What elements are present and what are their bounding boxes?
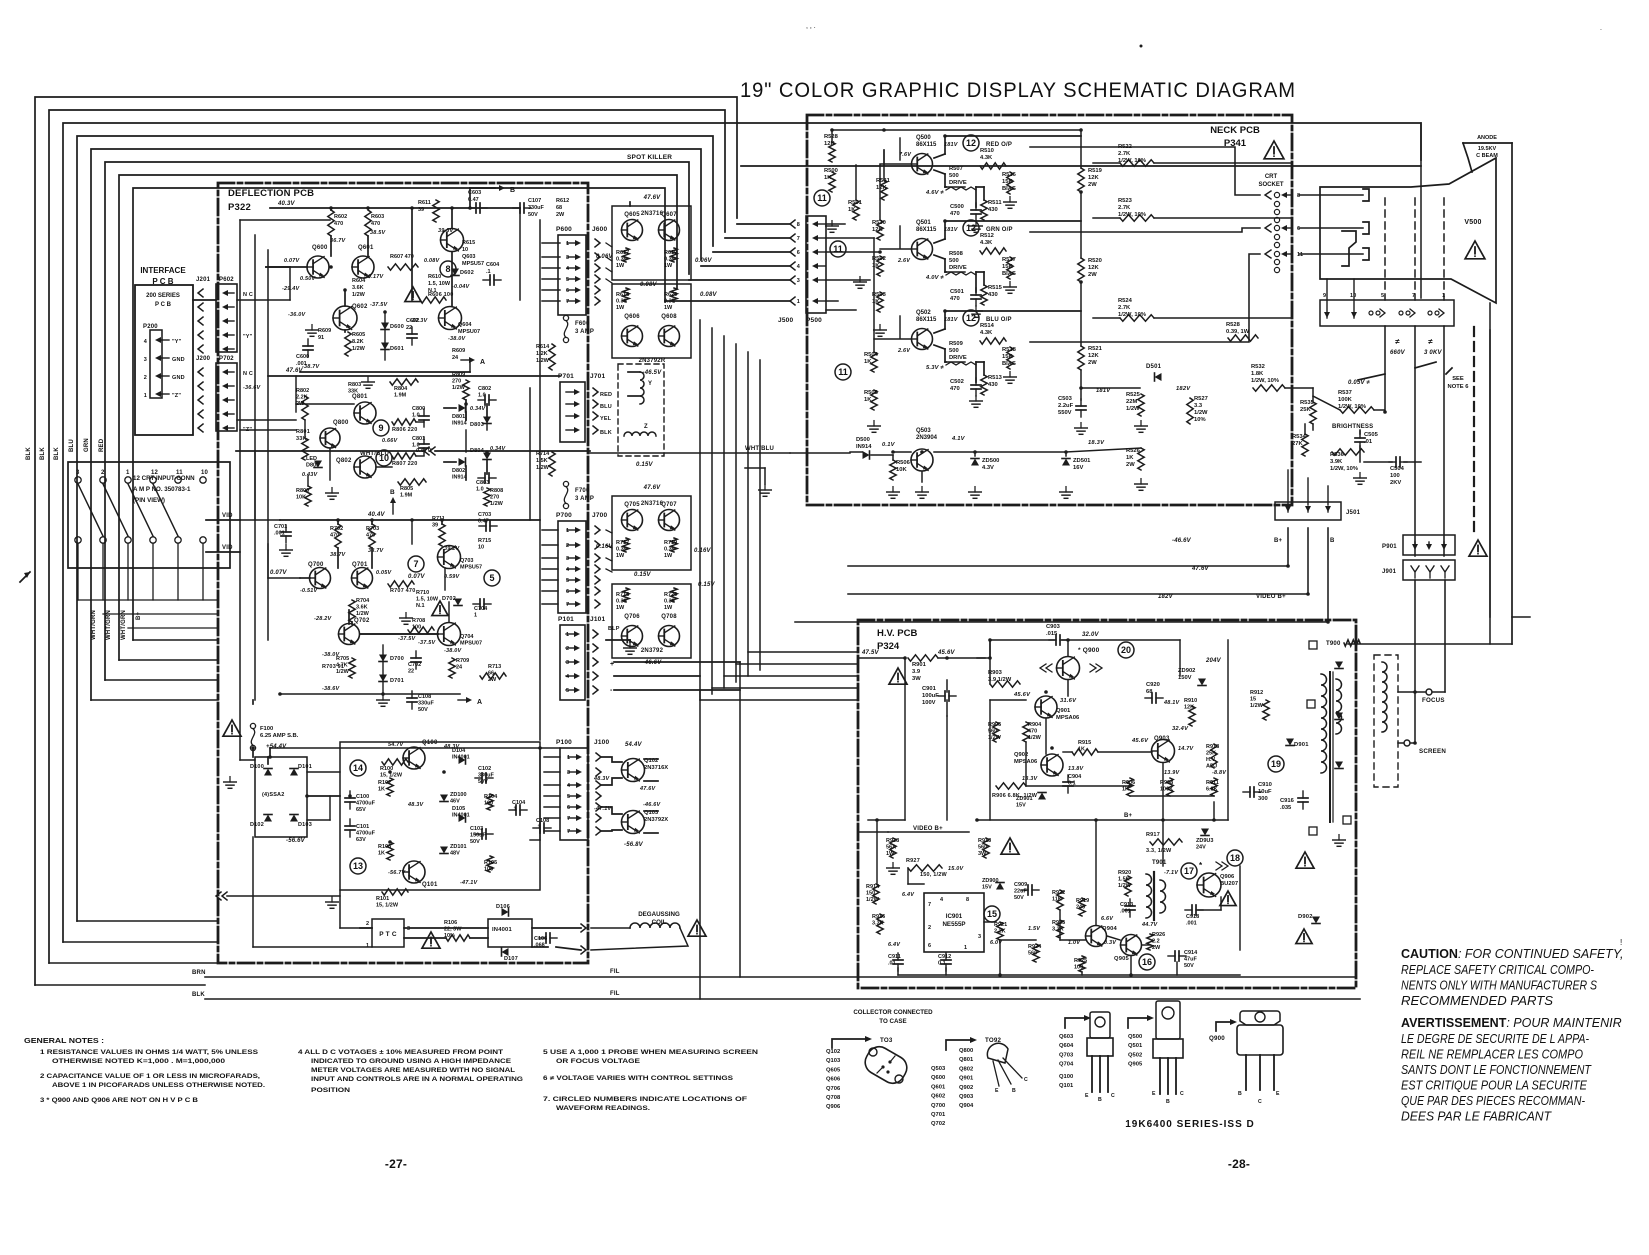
svg-text:-38.0V: -38.0V bbox=[322, 652, 341, 658]
degauss chevrons bbox=[581, 924, 586, 932]
TO220 package bbox=[1156, 1001, 1180, 1039]
svg-text:.01: .01 bbox=[888, 961, 896, 967]
svg-text:1.0: 1.0 bbox=[478, 393, 486, 399]
svg-text:2N3716: 2N3716 bbox=[641, 211, 664, 217]
resistor R102 bbox=[387, 778, 393, 796]
svg-text:R718: R718 bbox=[616, 592, 629, 598]
svg-text:D600: D600 bbox=[390, 324, 404, 330]
svg-text:22: 22 bbox=[406, 325, 412, 331]
svg-text:0.15V: 0.15V bbox=[634, 572, 651, 578]
capacitor C913 bbox=[1125, 899, 1135, 917]
svg-text:.01: .01 bbox=[1364, 439, 1373, 445]
svg-text:RECOMMENDED PARTS: RECOMMENDED PARTS bbox=[1401, 994, 1554, 1008]
svg-text:15, 1/2W: 15, 1/2W bbox=[380, 773, 403, 779]
svg-text:BLK: BLK bbox=[600, 430, 612, 436]
svg-text:P602: P602 bbox=[219, 277, 234, 283]
ground A1 bbox=[306, 325, 319, 337]
wire 40.3V rail bbox=[270, 207, 520, 209]
svg-text:2.2uF: 2.2uF bbox=[1058, 403, 1074, 409]
svg-text:2: 2 bbox=[566, 543, 569, 549]
svg-text:19.5KV: 19.5KV bbox=[1478, 146, 1497, 152]
svg-text:1K: 1K bbox=[1126, 455, 1134, 461]
wire HV v4 bbox=[1025, 742, 1027, 786]
transistor Q903 bbox=[1152, 740, 1175, 763]
svg-text:1K: 1K bbox=[824, 175, 832, 181]
svg-text:182V: 182V bbox=[1158, 594, 1174, 600]
TO126 package bbox=[1090, 1012, 1110, 1038]
IC901 box bbox=[924, 893, 984, 952]
svg-text:3.3K: 3.3K bbox=[1052, 927, 1064, 933]
svg-text:240: 240 bbox=[1076, 905, 1085, 911]
svg-text:P100: P100 bbox=[556, 739, 572, 746]
resistor R809 bbox=[463, 380, 469, 400]
resistor R605 bbox=[345, 332, 351, 356]
svg-text:1K: 1K bbox=[864, 359, 872, 365]
svg-text:R519: R519 bbox=[1088, 168, 1103, 174]
svg-text:48.3V: 48.3V bbox=[407, 802, 425, 808]
svg-text:6 ≠ VOLTAGE VARIES WITH CO: 6 ≠ VOLTAGE VARIES WITH CONTROL SETTINGS bbox=[543, 1075, 734, 1082]
svg-text:50V: 50V bbox=[528, 212, 538, 218]
wire B vertical bus bbox=[465, 400, 467, 404]
svg-text:, , .: , , . bbox=[806, 23, 816, 30]
svg-text:Q500: Q500 bbox=[916, 135, 931, 141]
svg-text:R514: R514 bbox=[980, 323, 995, 329]
ground R502 bbox=[854, 277, 867, 289]
svg-text:C102: C102 bbox=[478, 766, 491, 772]
svg-text:1: 1 bbox=[144, 393, 147, 399]
resistor R532 bbox=[1253, 385, 1285, 391]
wire HV h1 bbox=[990, 699, 1026, 701]
svg-text:R919: R919 bbox=[1076, 898, 1089, 904]
svg-text:R917: R917 bbox=[1146, 832, 1160, 838]
wire B to C link bbox=[469, 360, 471, 372]
wire gather drops right bbox=[103, 613, 218, 615]
svg-text:19" COLOR GRAPHIC DISPLAY: 19" COLOR GRAPHIC DISPLAY SCHEMATIC DIAG… bbox=[740, 78, 1296, 102]
svg-text:3: 3 bbox=[76, 470, 80, 476]
svg-text:RED: RED bbox=[600, 392, 612, 398]
wire video B+ entry bbox=[858, 831, 888, 833]
svg-text:3: 3 bbox=[566, 255, 569, 261]
svg-text:5 USE A 1,000 1 PROBE WHEN: 5 USE A 1,000 1 PROBE WHEN MEASURING SCR… bbox=[543, 1049, 758, 1056]
svg-text:"Y": "Y" bbox=[172, 339, 182, 345]
svg-text:0.66V: 0.66V bbox=[382, 438, 399, 444]
svg-text:MPSA06: MPSA06 bbox=[1056, 715, 1080, 721]
svg-text:50V: 50V bbox=[1014, 895, 1024, 901]
circled 7 bbox=[408, 556, 424, 572]
svg-text:P200: P200 bbox=[143, 324, 158, 330]
wire VID stub 2 bbox=[206, 551, 240, 553]
wire spot killer run bbox=[741, 165, 1421, 167]
svg-text:2: 2 bbox=[566, 646, 569, 652]
svg-text:WHT/GRN: WHT/GRN bbox=[91, 610, 97, 640]
svg-text:18: 18 bbox=[1230, 853, 1240, 863]
svg-text:5: 5 bbox=[1381, 293, 1384, 299]
svg-text:1 RESISTANCE VALUES IN OHMS: 1 RESISTANCE VALUES IN OHMS 1/4 WATT, 5%… bbox=[40, 1049, 259, 1056]
svg-text:-36.6V: -36.6V bbox=[243, 385, 262, 391]
svg-text:C909: C909 bbox=[1014, 882, 1027, 888]
wire defl v 466 bbox=[465, 404, 467, 420]
svg-text:0.39: 0.39 bbox=[664, 257, 675, 263]
svg-text:2: 2 bbox=[144, 375, 147, 381]
svg-text:45.6V: 45.6V bbox=[1013, 692, 1031, 698]
resistor R703 bbox=[369, 524, 375, 548]
svg-text:R523: R523 bbox=[1118, 198, 1133, 204]
capacitor C701 bbox=[281, 525, 291, 543]
svg-text:C: C bbox=[1258, 1099, 1262, 1105]
resistor R517 bbox=[1007, 257, 1013, 279]
resistor R919 bbox=[1079, 898, 1085, 916]
resistor R530 bbox=[877, 220, 883, 240]
resistor R718 bbox=[623, 588, 629, 602]
resistor R614 bbox=[549, 344, 555, 370]
wire collector Q500 bbox=[934, 154, 945, 158]
diode D804 bbox=[483, 453, 491, 460]
svg-text:BLK: BLK bbox=[54, 447, 60, 460]
resistor R602 bbox=[328, 210, 334, 236]
svg-text:12: 12 bbox=[966, 138, 976, 148]
svg-text:2.6V: 2.6V bbox=[897, 348, 911, 354]
svg-text:R924: R924 bbox=[1028, 944, 1042, 950]
svg-text:48.1V: 48.1V bbox=[1163, 700, 1181, 706]
transistor Q607 bbox=[659, 220, 680, 241]
svg-text:Q605: Q605 bbox=[624, 212, 640, 218]
svg-text:ZD500: ZD500 bbox=[982, 458, 999, 464]
resistor R101 bbox=[382, 889, 408, 895]
svg-text:R803: R803 bbox=[348, 382, 361, 388]
chevrons 18 bbox=[1216, 862, 1228, 870]
svg-text:-37.5V: -37.5V bbox=[398, 636, 417, 642]
svg-text:Q701: Q701 bbox=[352, 562, 368, 568]
svg-text:8: 8 bbox=[966, 897, 969, 903]
transistor Q700 bbox=[310, 568, 331, 589]
wire left loop tails bbox=[91, 699, 218, 701]
svg-text:C103: C103 bbox=[470, 826, 483, 832]
svg-text:100: 100 bbox=[1390, 473, 1400, 479]
svg-text:C802: C802 bbox=[478, 386, 491, 392]
wire T900 top link bbox=[1348, 643, 1512, 645]
svg-text:270: 270 bbox=[452, 379, 461, 385]
CRT electrode line 1 bbox=[1299, 194, 1363, 196]
svg-text:2: 2 bbox=[366, 921, 369, 927]
svg-text:R512: R512 bbox=[980, 233, 994, 239]
warning triangle F100 bbox=[223, 720, 241, 736]
capacitor C916 bbox=[1298, 791, 1308, 809]
svg-text:R920: R920 bbox=[1118, 870, 1131, 876]
svg-text:Q708: Q708 bbox=[826, 1095, 841, 1101]
wire RGB output green bbox=[1030, 228, 1260, 232]
svg-text:B+: B+ bbox=[1274, 538, 1283, 544]
svg-text:1: 1 bbox=[474, 613, 477, 619]
diode D105 bbox=[459, 814, 466, 822]
wire harness loop 7 bbox=[119, 175, 677, 660]
svg-text:65V: 65V bbox=[356, 807, 366, 813]
zener ZD903 bbox=[1201, 829, 1209, 836]
svg-text:R520: R520 bbox=[1088, 258, 1102, 264]
transistor Q705 bbox=[622, 510, 643, 531]
ground R518 bbox=[1004, 372, 1017, 384]
svg-text:100: 100 bbox=[484, 867, 493, 873]
wires LV rails bbox=[252, 748, 254, 757]
svg-text:4: 4 bbox=[940, 897, 944, 903]
svg-text:0.59V: 0.59V bbox=[444, 574, 461, 580]
wire HV interior misc bbox=[904, 658, 906, 680]
connector J901 bbox=[1403, 560, 1455, 580]
resistor R707 bbox=[388, 581, 414, 587]
svg-text:B: B bbox=[390, 489, 395, 496]
CRT base socket pins bbox=[1380, 309, 1385, 317]
svg-text:C503: C503 bbox=[1058, 396, 1073, 402]
svg-text:R501: R501 bbox=[848, 200, 863, 206]
warning triangle D902 bbox=[1296, 929, 1312, 944]
svg-text:1: 1 bbox=[964, 945, 967, 951]
svg-text:0.16V: 0.16V bbox=[596, 544, 613, 550]
svg-text:1: 1 bbox=[566, 528, 569, 534]
svg-text:R922: R922 bbox=[1052, 890, 1065, 896]
resistor R506 bbox=[890, 460, 896, 480]
svg-text:E: E bbox=[1085, 1093, 1089, 1099]
resistor R907 bbox=[1127, 778, 1133, 796]
connector P602 bbox=[216, 284, 237, 352]
svg-text:ZD9U3: ZD9U3 bbox=[1196, 838, 1213, 844]
wire right long verticals bbox=[1489, 303, 1491, 617]
resistor R704 bbox=[349, 600, 355, 622]
svg-text:BIAS: BIAS bbox=[1002, 361, 1016, 367]
svg-text:Q700: Q700 bbox=[308, 562, 324, 568]
svg-text:0.05V ≠: 0.05V ≠ bbox=[1348, 380, 1371, 386]
wires out of J700 chevrons bbox=[606, 530, 612, 533]
svg-text:0.08V: 0.08V bbox=[424, 258, 441, 264]
svg-text:1/2W, 10%: 1/2W, 10% bbox=[1330, 466, 1358, 472]
wire HV v2 bbox=[946, 716, 948, 820]
circled 9 bbox=[373, 420, 389, 436]
svg-text:1.5V: 1.5V bbox=[1028, 926, 1041, 932]
svg-text:13.8V: 13.8V bbox=[1068, 766, 1085, 772]
degaussing coil bbox=[630, 923, 680, 928]
warning triangle J901 bbox=[1469, 540, 1487, 556]
svg-text:1W: 1W bbox=[664, 605, 673, 611]
svg-text:R808: R808 bbox=[490, 488, 503, 494]
circled 18 bbox=[1227, 850, 1243, 866]
svg-text:2.2: 2.2 bbox=[1152, 939, 1160, 945]
svg-text:6.8K: 6.8K bbox=[1206, 787, 1218, 793]
svg-text:C500: C500 bbox=[950, 204, 964, 210]
wire HV v3 bbox=[989, 700, 991, 820]
svg-text:2: 2 bbox=[101, 470, 105, 476]
svg-text:16V: 16V bbox=[1073, 465, 1083, 471]
svg-text:86X115: 86X115 bbox=[916, 317, 937, 323]
transistor Q604 bbox=[439, 307, 462, 330]
warning triangle R913 bbox=[1001, 838, 1019, 854]
svg-text:3.9: 3.9 bbox=[912, 669, 921, 675]
svg-text:6.4V: 6.4V bbox=[888, 942, 901, 948]
svg-text:0.06V: 0.06V bbox=[695, 258, 712, 264]
svg-text:C108: C108 bbox=[418, 694, 431, 700]
svg-text:Q903: Q903 bbox=[1154, 736, 1170, 742]
svg-text:1/2W: 1/2W bbox=[866, 897, 880, 903]
svg-text:Q903: Q903 bbox=[959, 1094, 974, 1100]
svg-text:430: 430 bbox=[988, 207, 998, 213]
svg-text:-28-: -28- bbox=[1228, 1157, 1250, 1171]
wire P702 to B bbox=[237, 419, 296, 421]
svg-text:3: 3 bbox=[567, 770, 570, 776]
svg-text:2W: 2W bbox=[1088, 182, 1097, 188]
svg-text:330uF: 330uF bbox=[418, 701, 435, 707]
wire HV v1 bbox=[904, 680, 906, 820]
svg-text:1/2W: 1/2W bbox=[1126, 406, 1140, 412]
svg-text:1/2W, 10%: 1/2W, 10% bbox=[1118, 212, 1146, 218]
svg-text:4: 4 bbox=[567, 783, 571, 789]
capacitor C702 bbox=[411, 651, 421, 669]
resistor R502 bbox=[877, 256, 883, 276]
wire A verticals bbox=[330, 208, 332, 210]
diode D902 bbox=[1312, 917, 1320, 924]
Q900 chevrons bbox=[1040, 664, 1052, 672]
svg-text:6: 6 bbox=[1297, 226, 1300, 232]
svg-text:P322: P322 bbox=[228, 202, 251, 213]
svg-text:1K: 1K bbox=[1122, 787, 1129, 793]
svg-text:1/2W: 1/2W bbox=[452, 385, 466, 391]
connector P100 bbox=[560, 748, 588, 840]
capacitor C901 bbox=[938, 691, 956, 701]
svg-text:181V: 181V bbox=[1096, 388, 1111, 394]
svg-text:IC901: IC901 bbox=[946, 913, 963, 920]
resistor R922 bbox=[1057, 890, 1063, 910]
svg-text:47.6V: 47.6V bbox=[639, 786, 657, 792]
svg-text:0.39: 0.39 bbox=[664, 599, 675, 605]
svg-text:0.08V: 0.08V bbox=[640, 282, 657, 288]
svg-text:GND: GND bbox=[172, 357, 185, 363]
diode D102 bbox=[264, 815, 272, 822]
svg-text:1/2W: 1/2W bbox=[1028, 735, 1042, 741]
svg-text:C911: C911 bbox=[888, 954, 901, 960]
bridge rectifier frame bbox=[255, 757, 307, 837]
resistor R518 bbox=[1007, 347, 1013, 369]
svg-text:R506: R506 bbox=[896, 460, 911, 466]
svg-text:63V: 63V bbox=[356, 837, 366, 843]
warning triangle neck bbox=[1264, 141, 1284, 159]
svg-text:10: 10 bbox=[201, 470, 209, 476]
wire defl h 404 bbox=[296, 403, 354, 405]
svg-text:R615: R615 bbox=[462, 240, 475, 246]
svg-text:13.9V: 13.9V bbox=[1164, 770, 1181, 776]
svg-text:Q602: Q602 bbox=[352, 304, 368, 310]
svg-text:R925: R925 bbox=[1052, 920, 1065, 926]
capacitor C904 bbox=[1063, 775, 1073, 793]
svg-text:R609: R609 bbox=[318, 328, 331, 334]
svg-text:12K: 12K bbox=[1088, 265, 1099, 271]
svg-text:1/2W: 1/2W bbox=[1250, 703, 1264, 709]
zener ZD901 bbox=[1038, 793, 1046, 800]
svg-text:1K: 1K bbox=[872, 263, 880, 269]
circled 16 bbox=[1139, 954, 1155, 970]
svg-text:Q103: Q103 bbox=[826, 1058, 841, 1064]
ground R503 bbox=[874, 325, 887, 337]
svg-text:Q705: Q705 bbox=[624, 502, 640, 508]
svg-text:ANODE: ANODE bbox=[1477, 135, 1497, 141]
svg-text:54.7V: 54.7V bbox=[388, 742, 405, 748]
svg-text:REPLACE SAFETY CRITICAL COMPO-: REPLACE SAFETY CRITICAL COMPO- bbox=[1401, 963, 1594, 977]
svg-text:Q800: Q800 bbox=[959, 1048, 973, 1054]
circled 11 a bbox=[814, 190, 830, 206]
svg-text:3W: 3W bbox=[912, 676, 921, 682]
wire harness loop 1 bbox=[35, 97, 737, 985]
svg-text:D802: D802 bbox=[452, 468, 465, 474]
transistor Q608 bbox=[659, 326, 680, 347]
CRT electrode line 2 bbox=[1299, 227, 1363, 229]
svg-text:1.0: 1.0 bbox=[476, 487, 484, 493]
svg-text:0.34V: 0.34V bbox=[490, 446, 507, 452]
svg-text:14: 14 bbox=[353, 763, 363, 773]
wire gather line bbox=[78, 599, 218, 601]
svg-text:1.0: 1.0 bbox=[412, 443, 420, 449]
resistor R719 bbox=[671, 538, 677, 552]
svg-text:15V: 15V bbox=[982, 885, 992, 891]
svg-text:VIDEO B+: VIDEO B+ bbox=[913, 826, 943, 832]
svg-text:QUE PAR DES PIECES RECOMMAN-: QUE PAR DES PIECES RECOMMAN- bbox=[1401, 1094, 1585, 1108]
svg-text:R801: R801 bbox=[296, 429, 310, 435]
svg-text:-46.6V: -46.6V bbox=[1172, 538, 1192, 544]
svg-text:40.4V: 40.4V bbox=[367, 512, 385, 518]
svg-text:12: 12 bbox=[966, 313, 976, 323]
svg-text:22uF: 22uF bbox=[1014, 889, 1027, 895]
svg-text:P600: P600 bbox=[556, 226, 572, 233]
wire 47.6V rail B bbox=[268, 375, 560, 377]
resistor R906 bbox=[996, 783, 1026, 789]
svg-text:1.0: 1.0 bbox=[412, 413, 420, 419]
svg-text:Q601: Q601 bbox=[931, 1084, 946, 1090]
svg-text:SEE: SEE bbox=[1452, 376, 1464, 382]
driver pair Q605/Q607 box bbox=[612, 206, 691, 280]
circled 12 Q502 bbox=[963, 310, 979, 326]
svg-text:0.05V: 0.05V bbox=[376, 570, 393, 576]
resistor R510 bbox=[980, 163, 1006, 169]
ground C701 bbox=[280, 545, 293, 557]
svg-text:12: 12 bbox=[966, 223, 976, 233]
resistor R527 bbox=[1187, 398, 1193, 424]
svg-text:P702: P702 bbox=[219, 356, 234, 362]
junction dots right bbox=[1286, 564, 1290, 568]
svg-text:1/2W: 1/2W bbox=[1194, 410, 1208, 416]
node B arrow up bbox=[390, 497, 396, 514]
svg-text:1W: 1W bbox=[616, 553, 625, 559]
svg-text:39: 39 bbox=[418, 207, 424, 213]
svg-text:470: 470 bbox=[334, 221, 343, 227]
svg-text:B: B bbox=[1238, 1091, 1242, 1097]
svg-text:.015: .015 bbox=[1046, 631, 1058, 637]
diode D701 bbox=[379, 675, 387, 682]
svg-text:4.3K: 4.3K bbox=[980, 155, 993, 161]
svg-text:12K: 12K bbox=[872, 227, 883, 233]
svg-text:C912: C912 bbox=[938, 954, 951, 960]
T900 primary winding bbox=[1321, 674, 1327, 773]
svg-text:2KV: 2KV bbox=[1390, 480, 1401, 486]
svg-text:.001: .001 bbox=[274, 531, 285, 537]
resistor R603 bbox=[365, 210, 371, 236]
svg-text:1/2W, 10%: 1/2W, 10% bbox=[1251, 378, 1279, 384]
wire P602 to A bbox=[237, 299, 290, 301]
svg-text:Q800: Q800 bbox=[333, 420, 349, 426]
arrow bottom left bbox=[20, 572, 30, 582]
svg-text:15K: 15K bbox=[1002, 354, 1013, 360]
svg-text:F100: F100 bbox=[260, 726, 273, 732]
transistor Q706 bbox=[622, 626, 643, 647]
wire neck loads bbox=[1080, 130, 1082, 168]
svg-text:Q702: Q702 bbox=[354, 618, 370, 624]
svg-text:-0.51V: -0.51V bbox=[300, 588, 319, 594]
svg-text:2.6V: 2.6V bbox=[897, 258, 911, 264]
svg-text:33K: 33K bbox=[348, 389, 358, 395]
svg-text:R105: R105 bbox=[484, 860, 497, 866]
